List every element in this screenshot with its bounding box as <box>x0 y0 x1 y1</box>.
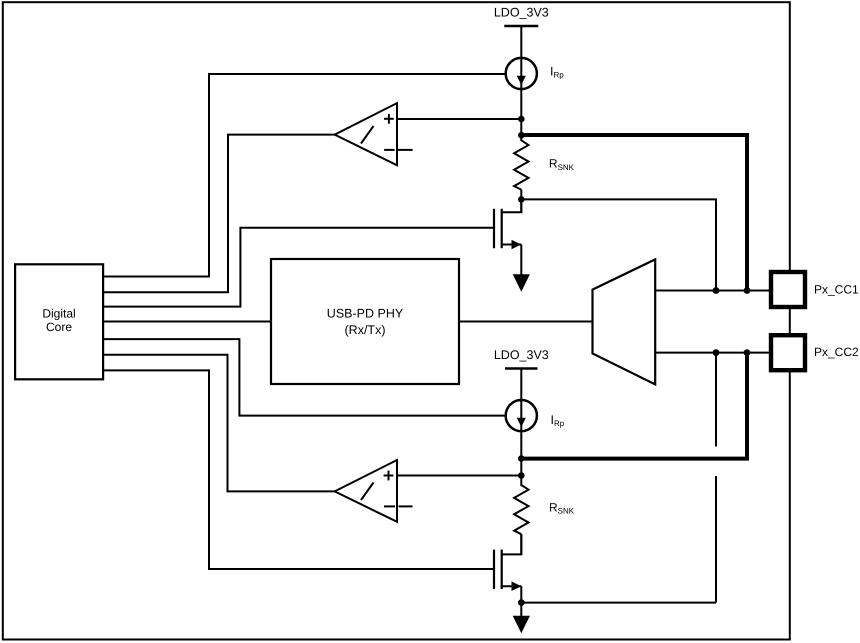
current source I_Rp (top) <box>506 57 537 90</box>
ground (bottom) <box>513 616 530 633</box>
svg-text:Core: Core <box>46 320 72 334</box>
thick wire bottom node to Px_CC2 line <box>521 353 747 459</box>
wire bottom ground node to Px_CC2 line (with hop gap) <box>521 353 716 603</box>
svg-text:USB-PD PHY: USB-PD PHY <box>327 307 404 321</box>
LDO_3V3 rail (bottom) <box>494 348 549 400</box>
node junction bottom CC2 sense <box>518 472 525 479</box>
resistor R_SNK (bottom) <box>514 485 528 534</box>
transistor M2 (bottom NMOS) <box>494 534 521 616</box>
wire core to top MOSFET gate <box>103 228 494 307</box>
wire top drain node to Px_CC1 line <box>521 199 716 290</box>
node junction CC2 / thick wire <box>744 349 751 356</box>
pad Px_CC1 <box>771 272 805 307</box>
USB-PD PHY block <box>271 259 459 384</box>
node junction bottom ground sense <box>518 599 525 606</box>
node junction CC2 / ground sense <box>713 349 720 356</box>
thick wire top node to Px_CC1 line <box>521 135 747 291</box>
pad Px_CC2 <box>771 335 805 370</box>
wire core to bottom current source control <box>103 339 506 416</box>
wire USB-PD PHY to mux <box>459 321 593 323</box>
svg-text:Px_CC1: Px_CC1 <box>814 283 859 297</box>
wire core to bottom MOSFET gate <box>103 370 494 569</box>
wire resistor bottom to MOSFET drain (bottom) <box>520 534 522 554</box>
node junction CC1 / drain sense <box>713 287 720 294</box>
wire comparator + input (top) <box>397 118 521 120</box>
LDO_3V3 rail (top) <box>494 6 549 58</box>
wire core to bottom comparator output <box>103 355 335 492</box>
svg-text:LDO_3V3: LDO_3V3 <box>494 6 549 20</box>
ground (top) <box>513 274 530 292</box>
node junction top thick wire <box>518 132 525 139</box>
mux <box>593 259 656 384</box>
wire bottom current source to resistor <box>520 431 522 486</box>
wire comparator + input (bottom) <box>397 475 521 477</box>
node junction CC1 / thick wire <box>744 287 751 294</box>
svg-text:Px_CC2: Px_CC2 <box>814 345 859 359</box>
node junction resistor bottom (top) <box>518 196 525 203</box>
svg-text:Digital: Digital <box>42 307 75 321</box>
wire mux to Px_CC1 <box>655 290 769 292</box>
wire mux to Px_CC2 <box>655 352 769 354</box>
resistor R_SNK (top) <box>514 140 528 189</box>
node junction top CC1 sense <box>518 116 525 123</box>
transistor M1 (top NMOS) <box>494 199 521 274</box>
node junction bottom thick wire <box>518 455 525 462</box>
svg-text:LDO_3V3: LDO_3V3 <box>494 348 549 362</box>
wire core to top current source control <box>103 74 506 277</box>
current source I_Rp (bottom) <box>506 399 537 432</box>
wire resistor bottom to MOSFET drain (top) <box>520 190 522 213</box>
comparator U2 (bottom) <box>335 460 413 522</box>
wire current source to resistor (top) <box>520 89 522 141</box>
Digital Core block <box>15 264 103 379</box>
comparator U1 (top) <box>335 103 413 165</box>
svg-text:(Rx/Tx): (Rx/Tx) <box>345 323 386 337</box>
wire core to top comparator output <box>103 135 335 293</box>
wire core to USB-PD PHY <box>103 321 271 323</box>
